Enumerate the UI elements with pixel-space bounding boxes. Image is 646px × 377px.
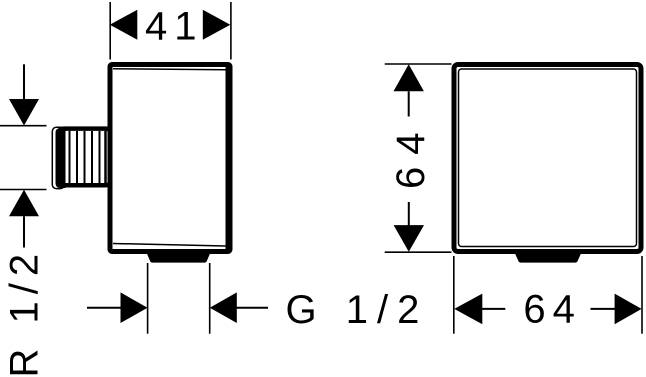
svg-text:R 1/2: R 1/2 [3,247,47,377]
svg-text:G 1/2: G 1/2 [286,288,429,332]
svg-text:64: 64 [389,121,433,190]
svg-text:41: 41 [145,5,204,49]
svg-text:64: 64 [523,287,582,331]
